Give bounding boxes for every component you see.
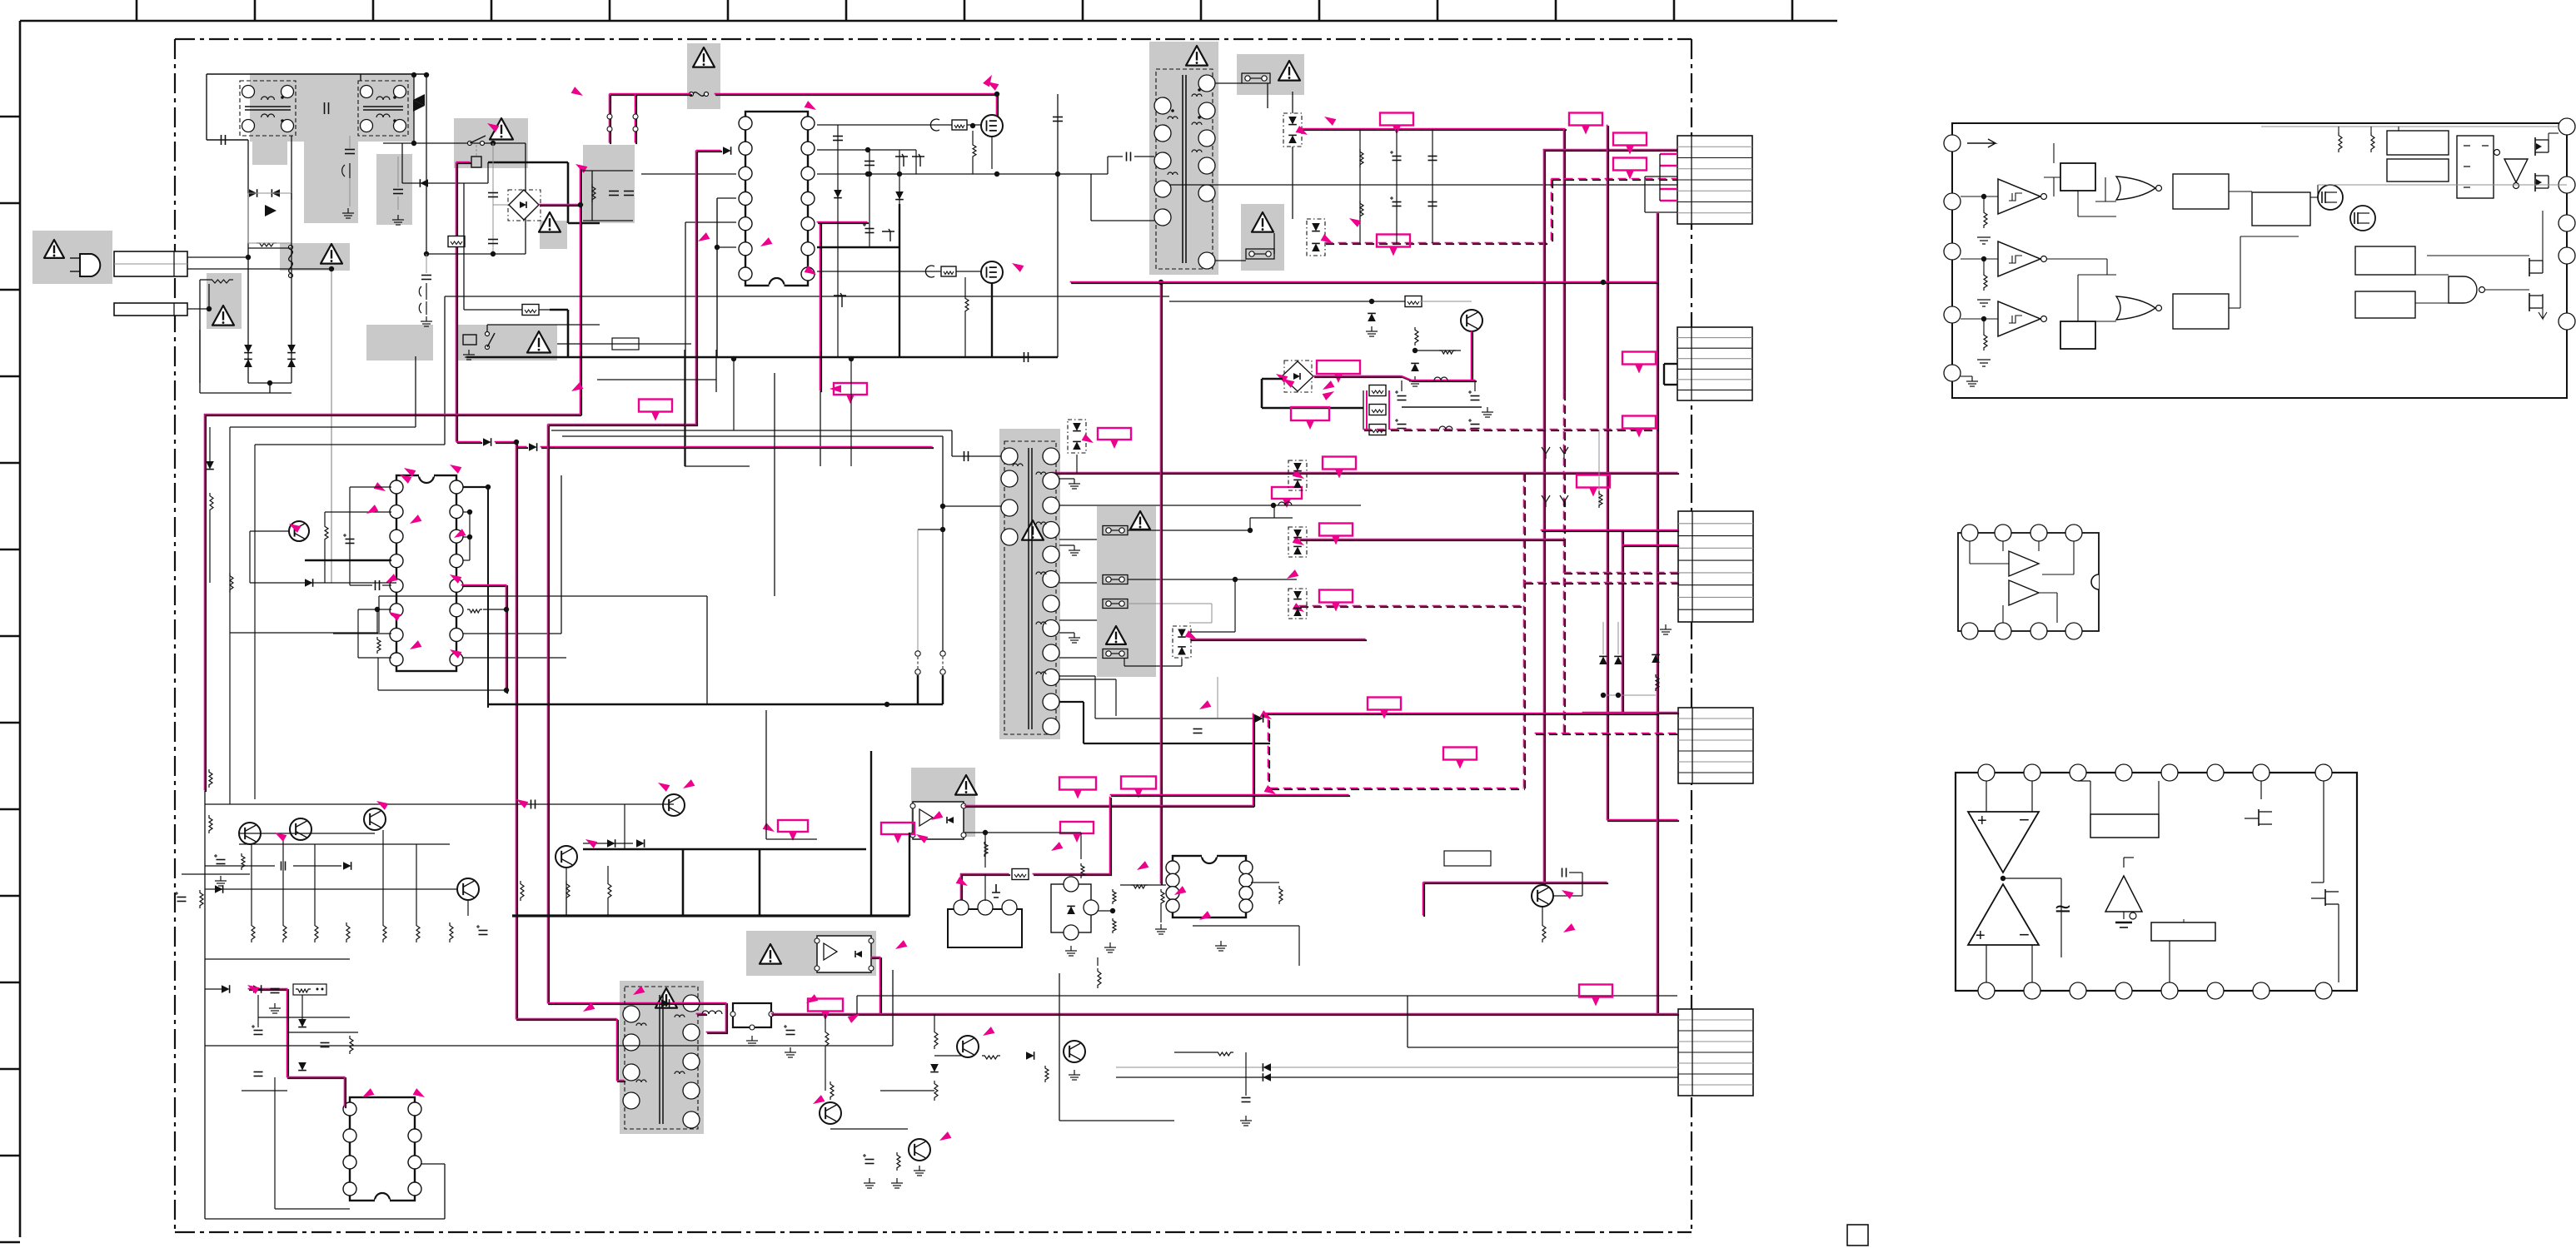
svg-text:−: −	[2019, 924, 2030, 945]
svg-text:+: +	[1976, 927, 1986, 945]
svg-text:−: −	[2019, 809, 2030, 830]
svg-text:+: +	[1977, 812, 1987, 830]
svg-text:≃: ≃	[2054, 896, 2072, 921]
